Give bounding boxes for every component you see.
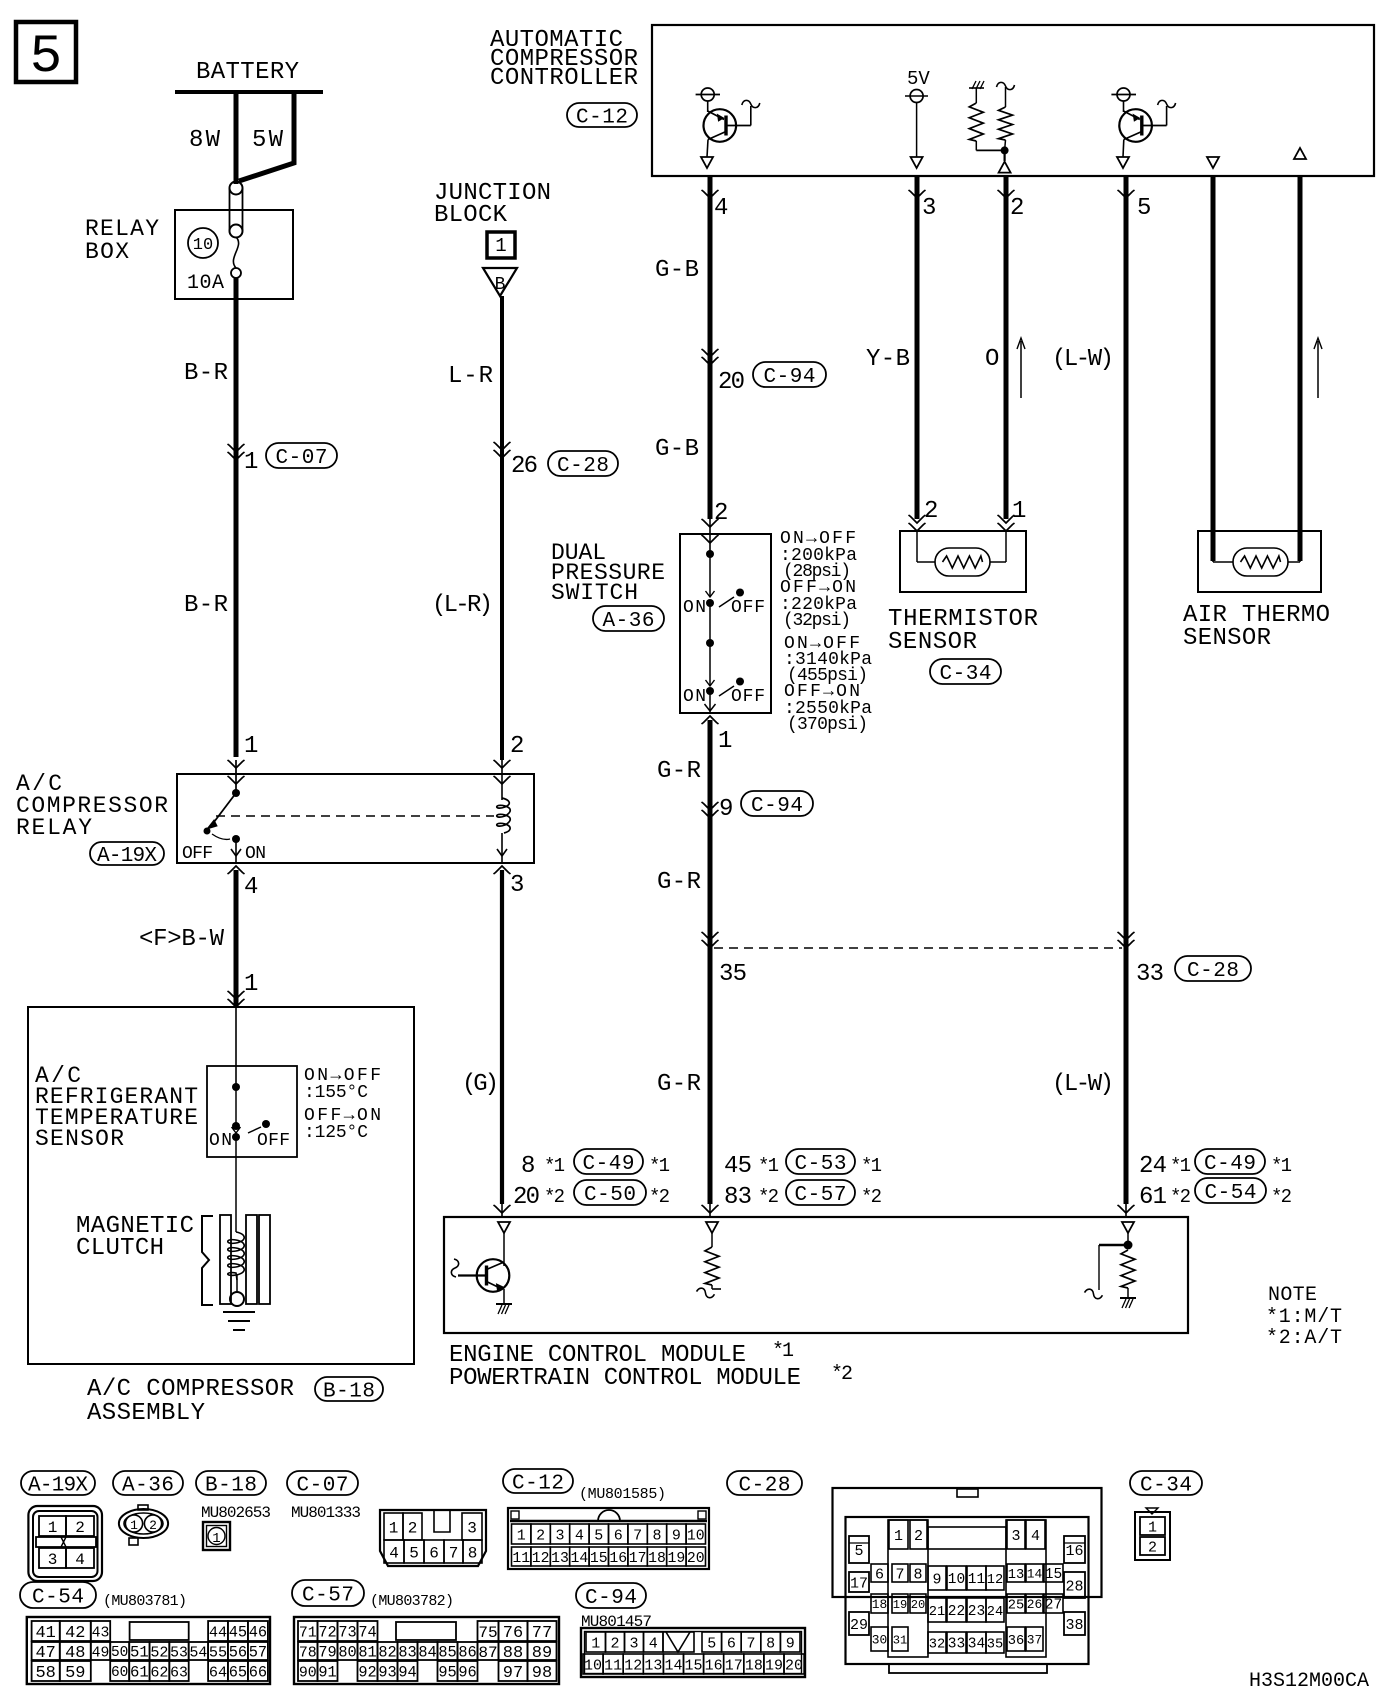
svg-text:(MU803782): (MU803782) [370, 1593, 454, 1610]
wire Y-B pin3 to thermistor [915, 176, 920, 519]
connector label C-54 bottom [20, 1582, 96, 1608]
svg-text:C-94: C-94 [763, 366, 815, 389]
svg-text:9: 9 [786, 1635, 795, 1652]
svg-text:32: 32 [929, 1637, 945, 1652]
svg-text:1: 1 [244, 449, 258, 476]
ACC resistor R1 [975, 88, 977, 103]
svg-text:RELAY: RELAY [16, 815, 92, 841]
DPS inside chevron [702, 535, 719, 543]
wire air thermo right [1298, 176, 1303, 561]
connector label C-54 tag [1195, 1178, 1266, 1203]
svg-text:26: 26 [511, 453, 538, 480]
svg-text:MU801333: MU801333 [291, 1504, 361, 1522]
svg-text:Y-B: Y-B [866, 346, 910, 373]
ACC transistor Q2 top terminal circle [1117, 88, 1130, 101]
junction 35-33 chevron left [702, 940, 719, 948]
svg-text:1: 1 [244, 733, 258, 760]
C-28 side tab 38 [1064, 1612, 1085, 1635]
svg-text:98: 98 [532, 1664, 552, 1683]
ECM transistor Q3 [477, 1259, 510, 1292]
svg-text:13: 13 [1008, 1568, 1024, 1583]
svg-text:19: 19 [893, 1598, 908, 1612]
svg-text:C-57: C-57 [794, 1184, 846, 1207]
sensor moving dot [232, 1122, 240, 1130]
svg-text:C-34: C-34 [939, 663, 991, 686]
svg-text:CLUTCH: CLUTCH [76, 1235, 164, 1262]
connector label C-34 [930, 659, 1001, 684]
DPS switch 1 wire [709, 554, 711, 597]
svg-text:79: 79 [318, 1644, 336, 1662]
svg-text:C-50: C-50 [584, 1184, 636, 1207]
svg-text:43: 43 [92, 1625, 110, 1641]
svg-text:<F>B-W: <F>B-W [139, 926, 225, 953]
svg-text:14: 14 [1027, 1567, 1043, 1582]
svg-text:8W: 8W [189, 127, 221, 154]
DPS switch 2 common dot [706, 687, 714, 695]
air thermo wires inside [1212, 531, 1214, 562]
svg-text:37: 37 [1027, 1633, 1042, 1648]
relay switch blade to OFF [211, 793, 236, 826]
DPS switch 1 blade [719, 597, 734, 607]
ACC resistor R2 [1005, 87, 1007, 107]
svg-text:*1: *1 [1271, 1155, 1292, 1177]
svg-text:L-R: L-R [448, 363, 493, 390]
svg-text:C-12: C-12 [576, 107, 628, 130]
clutch plate right outer [259, 1215, 270, 1304]
connector label C-53 [786, 1149, 855, 1174]
connector B-18 drawing [203, 1522, 230, 1550]
svg-text:24: 24 [987, 1605, 1003, 1620]
wire G-R DPS to ECM [708, 720, 713, 1204]
A/C compressor relay box A-19X [177, 774, 534, 863]
thermistor pin2 entry double chevron [909, 523, 926, 531]
thermistor wires inside [916, 531, 918, 562]
DPS bottom wire [709, 691, 711, 713]
thermistor sensor box C-34 [900, 531, 1026, 592]
svg-text:2: 2 [714, 500, 728, 527]
svg-text:34: 34 [968, 1637, 985, 1653]
svg-text:7: 7 [633, 1527, 642, 1544]
svg-text:10: 10 [687, 1528, 705, 1544]
connector label A-19X bottom [21, 1471, 95, 1495]
clutch ground terminal circle [230, 1292, 244, 1306]
ECM entry chevron W6 [1118, 1205, 1135, 1213]
ECM Q3 emitter lead [487, 1282, 503, 1290]
svg-text:83: 83 [398, 1644, 416, 1662]
svg-text:*2: *2 [861, 1186, 882, 1208]
svg-text:78: 78 [299, 1645, 317, 1661]
svg-text:C-07: C-07 [275, 447, 327, 470]
svg-text:ON: ON [209, 1131, 232, 1151]
connector label B-18 [315, 1377, 383, 1401]
wire L-R junction block down [500, 296, 504, 760]
relay pin1 chevron inside [228, 776, 245, 784]
connector label C-57 tag [786, 1180, 855, 1205]
svg-text:(370psi): (370psi) [787, 715, 868, 735]
A/C compressor assembly box B-18 [28, 1007, 414, 1364]
svg-text:OFF: OFF [257, 1131, 290, 1151]
svg-text:62: 62 [150, 1663, 168, 1681]
svg-text:11: 11 [512, 1551, 530, 1567]
air thermo element symbol [1233, 548, 1288, 576]
fuse F10 top terminal [230, 182, 243, 195]
svg-text:56: 56 [229, 1644, 247, 1662]
connector label B-18 bottom [196, 1471, 266, 1495]
ACC R1 R2 junction dot [1001, 146, 1009, 154]
svg-text:26: 26 [1027, 1597, 1042, 1612]
svg-text::155°C: :155°C [304, 1083, 368, 1103]
svg-text:14: 14 [664, 1657, 682, 1674]
engine control module box [444, 1217, 1188, 1333]
svg-text:2: 2 [610, 1635, 619, 1652]
relay coil dashed link [216, 815, 494, 817]
svg-text:6: 6 [875, 1566, 884, 1583]
svg-text:*2: *2 [649, 1186, 670, 1208]
svg-text:11: 11 [968, 1572, 985, 1588]
C-28 cells row B [871, 1564, 888, 1582]
svg-text:16: 16 [1065, 1543, 1083, 1560]
ACC input triangle W8 [1294, 148, 1306, 159]
DPS switch 2 blade [719, 686, 734, 696]
svg-text:19: 19 [765, 1657, 783, 1674]
svg-text:1: 1 [212, 1531, 220, 1547]
svg-text:55: 55 [209, 1643, 227, 1661]
svg-text:2: 2 [149, 1518, 157, 1533]
svg-text:25: 25 [1008, 1598, 1024, 1613]
svg-text:15: 15 [590, 1551, 608, 1567]
ACC input triangle pin 2 [1003, 150, 1005, 161]
svg-text:23: 23 [968, 1604, 985, 1620]
svg-text:OFF: OFF [731, 598, 765, 618]
svg-text:83: 83 [724, 1184, 752, 1211]
svg-text:87: 87 [478, 1644, 497, 1662]
DPS switch 2 OFF contact dot [736, 678, 744, 686]
ACC transistor Q2 [1123, 101, 1125, 112]
svg-text:6: 6 [614, 1527, 623, 1544]
svg-text:5V: 5V [907, 68, 930, 90]
relay common contact dot [232, 789, 240, 797]
svg-text:*2: *2 [1271, 1186, 1292, 1208]
svg-text:8: 8 [468, 1544, 478, 1562]
svg-text:A-36: A-36 [122, 1475, 174, 1498]
wire G relay to ECM [500, 870, 504, 1204]
svg-text:2: 2 [408, 1519, 418, 1537]
svg-text:16: 16 [705, 1657, 723, 1674]
connector C-07 junction marker [228, 452, 245, 460]
svg-text:1: 1 [495, 235, 506, 257]
ECM Q3 emitter to ground [503, 1289, 505, 1303]
svg-text::125°C: :125°C [304, 1123, 368, 1143]
fusible link 5W wire [239, 92, 294, 181]
svg-text:1: 1 [1012, 498, 1026, 525]
connector C-28 junction marker 26 [494, 450, 511, 458]
svg-text:ON: ON [683, 687, 706, 707]
svg-text:50: 50 [111, 1645, 128, 1661]
svg-text:2: 2 [1010, 195, 1024, 222]
svg-text:4: 4 [75, 1551, 85, 1569]
svg-text:*1: *1 [1170, 1155, 1191, 1177]
svg-text:61: 61 [130, 1664, 149, 1682]
relay pin 4 exit chevron [228, 866, 245, 874]
svg-text:(L-W): (L-W) [1052, 346, 1114, 373]
svg-text:*1: *1 [544, 1155, 565, 1177]
DPS switch 2 wire [709, 643, 711, 686]
connector label A-36 [593, 606, 664, 631]
ACC output triangle pin 4 [701, 157, 713, 168]
ACC Q2 emitter lead [1124, 132, 1142, 140]
svg-text:52: 52 [150, 1643, 168, 1661]
svg-text:38: 38 [1065, 1617, 1083, 1634]
svg-text:10: 10 [193, 236, 213, 255]
svg-text:35: 35 [719, 961, 747, 988]
svg-text:C-94: C-94 [751, 795, 803, 818]
svg-text:SENSOR: SENSOR [35, 1126, 124, 1152]
svg-text:2: 2 [914, 1528, 923, 1545]
svg-text:2: 2 [536, 1527, 545, 1544]
svg-text:4: 4 [1031, 1528, 1040, 1545]
wire into refrigerant temp sensor [235, 1007, 237, 1087]
ACC Q1 emitter lead [708, 132, 726, 140]
wire sensor to magnetic clutch [235, 1137, 237, 1232]
svg-text:C-57: C-57 [302, 1585, 354, 1608]
svg-text:CONTROLLER: CONTROLLER [490, 65, 638, 92]
connector A-36 drawing [119, 1509, 168, 1538]
svg-text:86: 86 [458, 1644, 476, 1662]
svg-text:H3S12M00CA: H3S12M00CA [1249, 1670, 1369, 1693]
svg-text:64: 64 [209, 1663, 227, 1681]
relay coil to pin 3 arrow [501, 833, 503, 863]
connector C-28 drawing outer housing [833, 1488, 1102, 1597]
ACC resistor R1 ground hatch [972, 81, 976, 89]
thermistor element symbol [935, 548, 990, 576]
svg-text:20: 20 [785, 1657, 803, 1674]
connector label C-12 bottom [503, 1469, 573, 1493]
svg-text:3: 3 [1011, 1528, 1020, 1545]
svg-text:17: 17 [725, 1657, 743, 1674]
clutch coil to ground wire [236, 1275, 238, 1293]
connector label C-57 bottom [292, 1580, 364, 1606]
svg-text:20: 20 [687, 1551, 705, 1567]
DPS switch 1 OFF contact dot [736, 589, 744, 597]
svg-text:A-36: A-36 [602, 610, 654, 633]
relay pin 3 exit chevron [494, 866, 511, 874]
svg-text:BOX: BOX [85, 239, 129, 265]
svg-text:29: 29 [850, 1617, 868, 1634]
connector label C-07 [266, 443, 337, 468]
ACC transistor Q1 [707, 101, 709, 112]
C-28 side tab 28 [1064, 1572, 1085, 1598]
svg-text:10: 10 [948, 1572, 965, 1588]
C-94 keyway V [663, 1632, 694, 1652]
svg-text:36: 36 [1008, 1634, 1024, 1649]
svg-text:C-94: C-94 [585, 1587, 637, 1610]
svg-text:*2: *2 [831, 1363, 853, 1386]
junction block fuse 1 box [487, 232, 515, 258]
ECM input triangle W6 [1122, 1222, 1134, 1233]
C-28 side tab 16 [1064, 1536, 1085, 1563]
svg-text:MU802653: MU802653 [201, 1504, 271, 1522]
svg-text:G-B: G-B [655, 257, 699, 284]
svg-text:NOTE: NOTE [1268, 1284, 1317, 1307]
clutch pulley bracket [202, 1216, 213, 1305]
svg-text:45: 45 [724, 1153, 752, 1180]
connector label A-36 bottom [113, 1471, 183, 1495]
relay coil [497, 798, 511, 833]
svg-text:20: 20 [513, 1184, 540, 1211]
svg-text:BATTERY: BATTERY [196, 59, 299, 86]
svg-text:22: 22 [948, 1604, 965, 1620]
svg-text:SWITCH: SWITCH [551, 580, 638, 606]
svg-text:71: 71 [299, 1625, 317, 1641]
connector label C-50 [574, 1180, 646, 1205]
signal direction arrow up [1020, 341, 1022, 398]
svg-text:ON: ON [683, 598, 706, 618]
connector C-94 marker 20 [702, 357, 719, 365]
svg-text:SENSOR: SENSOR [1183, 625, 1271, 652]
DPS entry chevron [702, 519, 719, 527]
svg-text:1: 1 [517, 1527, 526, 1544]
connector label C-94 bottom [576, 1583, 646, 1608]
clutch coil [228, 1232, 245, 1280]
svg-text:73: 73 [338, 1624, 356, 1642]
connector C-07 drawing [380, 1510, 486, 1566]
svg-text:6: 6 [727, 1635, 736, 1652]
svg-text:1: 1 [48, 1519, 58, 1537]
svg-text:12: 12 [987, 1573, 1003, 1588]
relay ON contact dot [232, 835, 240, 843]
fuse F10 body [229, 188, 231, 231]
wire G-B pin4 to DPS [708, 176, 713, 519]
C-28 channel 3-4 [1006, 1520, 1046, 1657]
svg-text:C-49: C-49 [582, 1153, 634, 1176]
ECM Q3 base curl [451, 1259, 458, 1277]
svg-text:90: 90 [299, 1665, 317, 1681]
svg-text:4: 4 [649, 1635, 658, 1652]
sensor switch wire [235, 1087, 237, 1126]
ECM resistor R4 [1121, 1250, 1135, 1288]
svg-text:C-34: C-34 [1140, 1475, 1192, 1498]
air thermo sensor box [1198, 531, 1321, 592]
svg-text:3: 3 [922, 195, 936, 222]
A/C compressor relay pin 1 entry chevron [228, 760, 245, 768]
svg-text:30: 30 [872, 1633, 887, 1648]
svg-text:ON: ON [245, 844, 266, 864]
svg-text:35: 35 [987, 1637, 1003, 1652]
svg-text:14: 14 [571, 1551, 589, 1567]
svg-text:B-R: B-R [184, 592, 228, 619]
svg-text:A/C COMPRESSOR: A/C COMPRESSOR [87, 1376, 294, 1403]
junction block triangle B [483, 268, 517, 296]
svg-text:27: 27 [1045, 1598, 1062, 1614]
connector label C-28 [548, 451, 618, 476]
thermistor pin1 entry double chevron [998, 523, 1015, 531]
svg-text:3: 3 [510, 872, 524, 899]
svg-text:4: 4 [389, 1544, 399, 1562]
C-28 channel 1-2 [888, 1520, 928, 1657]
svg-text:BLOCK: BLOCK [434, 202, 508, 229]
svg-text:45: 45 [229, 1624, 247, 1642]
C-28 cells row D [871, 1627, 888, 1651]
ACC output triangle pin 5 [1117, 157, 1129, 168]
svg-text:*1: *1 [649, 1155, 670, 1177]
svg-text:6: 6 [429, 1544, 439, 1562]
svg-text:1: 1 [130, 1518, 138, 1533]
connector label C-12 [567, 103, 637, 127]
C-28 side tab 29 [849, 1612, 869, 1635]
ECM W6 wire to junction dot [1127, 1233, 1129, 1245]
svg-text:4: 4 [575, 1527, 584, 1544]
svg-text:C-12: C-12 [512, 1473, 564, 1496]
connector label C-49 [574, 1149, 643, 1174]
ECM input triangle W2 [498, 1222, 510, 1233]
DPS top contact dot [706, 550, 714, 558]
wire L-W pin5 to ECM [1124, 176, 1129, 1204]
clutch plate right inner [246, 1215, 257, 1304]
sensor OFF blade [248, 1127, 261, 1133]
C-28 inner body [846, 1517, 1089, 1664]
svg-text:4: 4 [244, 874, 258, 901]
ECM entry chevron W3 [702, 1205, 719, 1213]
svg-text:1: 1 [894, 1528, 903, 1545]
svg-text:*1: *1 [772, 1340, 794, 1363]
A/C refrigerant temperature sensor box [207, 1066, 297, 1157]
clutch plate left [220, 1215, 231, 1304]
svg-text:C-49: C-49 [1204, 1153, 1256, 1176]
svg-text:C-53: C-53 [794, 1153, 846, 1176]
svg-text:63: 63 [170, 1665, 188, 1681]
svg-text:B: B [495, 275, 506, 295]
svg-text:18: 18 [648, 1551, 666, 1567]
connector label A-19X [90, 842, 164, 865]
ECM input triangle W3 [706, 1222, 718, 1233]
C-28 side tab 17 [849, 1572, 869, 1592]
wire (F)B-W [234, 870, 239, 1006]
connector label C-49 right [1195, 1149, 1265, 1174]
svg-text:10: 10 [584, 1657, 602, 1674]
svg-text:94: 94 [398, 1664, 416, 1682]
svg-text:*2:A/T: *2:A/T [1266, 1327, 1342, 1350]
connector C-54 drawing [27, 1617, 270, 1684]
svg-text:82: 82 [378, 1644, 396, 1662]
svg-text:1: 1 [244, 971, 258, 998]
svg-text:3: 3 [629, 1635, 638, 1652]
svg-text:*1: *1 [758, 1155, 779, 1177]
svg-text:1: 1 [1148, 1519, 1157, 1536]
svg-text:8: 8 [913, 1566, 922, 1583]
ACC output triangle pin 3 [911, 157, 923, 168]
svg-text:5: 5 [1137, 195, 1151, 222]
relay box [175, 210, 293, 299]
DPS mid dot [709, 603, 711, 643]
connector C-57 drawing [294, 1617, 559, 1684]
ACC 5V circle [910, 90, 923, 103]
svg-text:G-R: G-R [657, 869, 701, 896]
svg-text:1: 1 [718, 728, 732, 755]
connector label C-94 2 [741, 791, 813, 816]
svg-text:76: 76 [503, 1624, 523, 1643]
svg-text:*1:M/T: *1:M/T [1266, 1306, 1342, 1329]
svg-text:9: 9 [672, 1527, 681, 1544]
svg-text:51: 51 [130, 1644, 149, 1662]
svg-text:20: 20 [911, 1598, 926, 1612]
sensor contact top dot [232, 1083, 240, 1091]
connector C-94 marker 9 [702, 810, 719, 818]
fuse number 10 circle [188, 228, 218, 258]
svg-text:C-28: C-28 [1187, 960, 1239, 983]
svg-text:5: 5 [594, 1527, 603, 1544]
svg-text:17: 17 [850, 1575, 868, 1592]
svg-text:2: 2 [1148, 1539, 1157, 1556]
